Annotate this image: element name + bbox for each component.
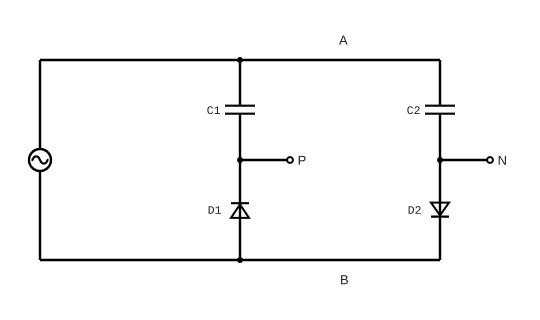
label D1 [209, 206, 221, 214]
wire right branch upper [439, 60, 441, 105]
node junction dot top of middle branch [237, 57, 243, 63]
label P [299, 156, 306, 165]
label D2 [409, 206, 421, 214]
AC source [29, 149, 51, 171]
node label A [339, 36, 348, 45]
wire left vertical lower [39, 171, 41, 260]
node junction dot bottom of middle branch [237, 257, 243, 263]
label C2 [407, 106, 419, 114]
node junction dot middle branch at P [237, 157, 243, 163]
wire P tap [240, 159, 287, 161]
capacitor C1 [225, 106, 255, 114]
terminal P open circle [287, 157, 293, 163]
node junction dot right branch at N [437, 157, 443, 163]
wire N tap [440, 159, 487, 161]
diode D1 [231, 203, 249, 218]
wire bottom horizontal B-rail [40, 259, 440, 261]
diode D2 [431, 203, 449, 217]
label N [499, 156, 506, 165]
wire middle branch upper [239, 60, 241, 105]
wire left vertical upper [39, 60, 41, 149]
wire right branch lower [439, 115, 441, 260]
wire top horizontal A-rail [40, 59, 440, 61]
node label B [341, 275, 348, 284]
wire middle branch lower [239, 115, 241, 260]
capacitor C2 [425, 106, 455, 114]
label C1 [207, 106, 220, 114]
terminal N open circle [487, 157, 493, 163]
